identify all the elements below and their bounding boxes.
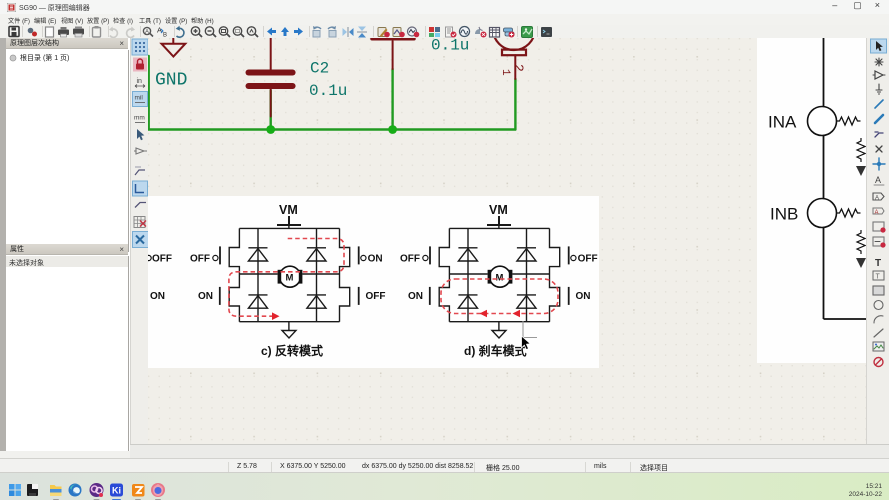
current path (brake mode) xyxy=(441,279,558,314)
VM power label xyxy=(277,203,301,225)
wire IN bus vertical xyxy=(823,38,825,319)
grid override (red) xyxy=(133,58,147,72)
global label xyxy=(873,193,884,200)
wire tool xyxy=(875,100,883,108)
ground wire xyxy=(288,322,290,331)
image tool xyxy=(873,342,884,351)
H-bridge diagram d xyxy=(400,203,598,358)
svg-text:VM: VM xyxy=(489,203,508,217)
bottom bus wire xyxy=(449,321,549,323)
motor row wire xyxy=(449,273,549,275)
svg-text:A: A xyxy=(875,175,881,185)
junction xyxy=(873,158,885,170)
junction xyxy=(388,125,397,134)
gate bubble top-right xyxy=(361,255,366,260)
wire xyxy=(391,69,393,130)
hierarchical sheet xyxy=(873,222,884,231)
gate bar bottom-left xyxy=(429,287,431,305)
capacitor C2 xyxy=(249,38,293,117)
motor M xyxy=(278,266,303,287)
sheet pin xyxy=(873,237,884,246)
current arrow xyxy=(513,310,521,318)
wire xyxy=(147,56,149,130)
svg-text:A: A xyxy=(145,30,149,36)
svg-text:c) 反转模式: c) 反转模式 xyxy=(261,343,323,358)
wire bottom xyxy=(824,318,867,320)
gate bar bottom-left xyxy=(219,287,221,305)
svg-text:in: in xyxy=(137,78,143,85)
switch Q3 body (bottom-left) xyxy=(229,274,239,322)
buzzer BZ1 (partially visible) xyxy=(493,8,535,79)
resistor (INB pulldown, cut) xyxy=(857,230,865,254)
svg-text:T: T xyxy=(876,274,881,281)
partial label OFF (cut diagram) xyxy=(146,254,172,265)
diode D1 xyxy=(248,248,267,261)
svg-text:OFF: OFF xyxy=(366,291,386,302)
current path (reverse mode) xyxy=(229,239,344,317)
diode D7 xyxy=(458,295,477,308)
wire xyxy=(270,91,272,130)
node INB xyxy=(808,199,837,228)
svg-text:ON: ON xyxy=(198,291,213,302)
hierarchical label xyxy=(873,208,884,214)
circle tool xyxy=(874,301,883,310)
svg-text:mm: mm xyxy=(134,115,145,122)
svg-text:2: 2 xyxy=(511,64,526,72)
svg-text:VM: VM xyxy=(279,203,298,217)
motor M xyxy=(488,266,513,287)
units mils (selected) xyxy=(133,92,148,107)
resistor (INA pulldown, cut) xyxy=(857,138,865,162)
capacitor C (top, partially visible) xyxy=(372,39,414,69)
switch Q1 body (top-left) xyxy=(229,228,239,274)
diode (INA, cut) xyxy=(856,166,866,176)
junction xyxy=(266,125,275,134)
svg-text:OFF: OFF xyxy=(578,254,598,265)
motor row wire xyxy=(239,273,339,275)
rail wire left xyxy=(467,228,469,321)
svg-text:OFF: OFF xyxy=(400,254,420,265)
svg-text:Ki: Ki xyxy=(112,485,121,495)
wire VM to bridge xyxy=(498,225,500,228)
resistor (INA series) xyxy=(837,117,861,125)
svg-text:OFF: OFF xyxy=(152,254,172,265)
bridge outline xyxy=(239,227,339,229)
svg-text:ON: ON xyxy=(408,291,423,302)
gate bubble top-left xyxy=(213,255,218,260)
gate bar bottom-right xyxy=(568,287,570,305)
rail wire left xyxy=(257,228,259,321)
VM power label xyxy=(487,203,511,225)
delete tool xyxy=(874,358,883,367)
cursor shape xyxy=(137,129,144,140)
no connect xyxy=(876,146,882,152)
svg-text:INB: INB xyxy=(770,205,798,224)
svg-text:1: 1 xyxy=(499,69,511,76)
place symbol xyxy=(875,71,883,79)
wire xyxy=(514,79,516,130)
wire xyxy=(149,128,516,130)
svg-text:A: A xyxy=(875,196,879,202)
free angle wires xyxy=(135,170,145,175)
bus tool xyxy=(875,115,883,123)
bottom bus wire xyxy=(239,321,339,323)
svg-text:M: M xyxy=(496,273,504,284)
diode D5 xyxy=(458,248,477,261)
switch Q2 body (top-right) xyxy=(340,228,350,274)
switch Q4 body (bottom-right) xyxy=(340,274,350,322)
embedded image: INA/INB input circuit figure xyxy=(757,38,866,363)
bridge outline xyxy=(449,227,549,229)
arc tool xyxy=(874,316,883,323)
svg-text:INA: INA xyxy=(768,113,797,132)
diode D3 xyxy=(248,295,267,308)
grid toggle (selected) xyxy=(132,39,148,55)
ground wire xyxy=(498,322,500,331)
45 deg wires xyxy=(135,203,146,208)
place power port xyxy=(876,84,882,94)
svg-text:GND: GND xyxy=(155,71,187,91)
gate bar top-right xyxy=(358,246,360,264)
gate bubble top-right xyxy=(571,255,576,260)
wire VM to bridge xyxy=(288,225,290,228)
svg-text:T: T xyxy=(875,258,881,269)
rail wire right xyxy=(526,228,528,321)
diode D2 xyxy=(307,248,326,261)
ground xyxy=(282,331,296,339)
annotation grid xyxy=(134,217,145,228)
svg-text:0.1u: 0.1u xyxy=(309,82,347,100)
diode D4 xyxy=(307,295,326,308)
diode D8 xyxy=(517,295,536,308)
hidden pins xyxy=(136,148,144,154)
H-bridge diagram c xyxy=(190,203,386,358)
wire to bus entry xyxy=(875,132,883,137)
svg-text:d) 刹车模式: d) 刹车模式 xyxy=(464,343,527,358)
highlight net xyxy=(875,58,883,66)
svg-text:OFF: OFF xyxy=(190,254,210,265)
ground xyxy=(492,331,506,339)
resistor (INB series) xyxy=(837,209,861,217)
current arrow xyxy=(480,310,488,318)
power symbol GND xyxy=(162,38,186,57)
text box tool xyxy=(873,271,884,280)
embedded image: H-bridge modes figure xyxy=(146,196,599,368)
gate bar bottom-right xyxy=(358,287,360,305)
rectangle tool xyxy=(873,286,884,295)
switch Q2 body (top-right) xyxy=(550,228,560,274)
diode (INB, cut) xyxy=(856,258,866,268)
svg-text:C2: C2 xyxy=(310,60,329,78)
gate bar top-left xyxy=(219,246,221,264)
switch Q3 body (bottom-left) xyxy=(439,274,449,322)
svg-text:ON: ON xyxy=(150,291,165,302)
diode D6 xyxy=(517,248,536,261)
select tool (active) xyxy=(871,39,887,53)
switch Q4 body (bottom-right) xyxy=(550,274,560,322)
svg-text:M: M xyxy=(286,273,294,284)
polyline tool xyxy=(874,329,883,337)
svg-text:A: A xyxy=(875,210,879,216)
svg-text:0.1u: 0.1u xyxy=(431,38,469,55)
mouse cursor xyxy=(522,321,538,350)
hierarchy tool (selected) xyxy=(133,232,149,248)
svg-text:ON: ON xyxy=(576,291,591,302)
gate bar top-left xyxy=(429,246,431,264)
gate bar top-right xyxy=(568,246,570,264)
svg-text:ON: ON xyxy=(368,254,383,265)
switch Q1 body (top-left) xyxy=(439,228,449,274)
rail wire right xyxy=(316,228,318,321)
svg-text:mil: mil xyxy=(135,95,144,102)
current arrow xyxy=(272,312,280,320)
90 deg wires (selected) xyxy=(133,181,148,196)
gate bubble top-left xyxy=(423,255,428,260)
node INA xyxy=(808,107,837,136)
